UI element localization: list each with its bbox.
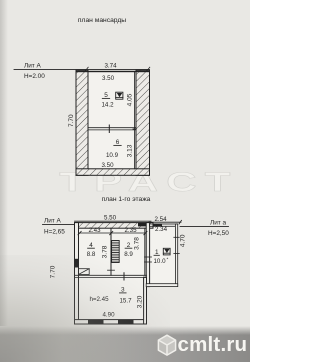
partition rooms 4|2 [110,228,112,275]
stove between rooms 4 and 2 [112,241,120,263]
attic interior wall between 5 and 6 [88,127,136,129]
svg-text:Н=2,65: Н=2,65 [44,229,65,236]
door tick on right wall [145,256,152,258]
inner dim line under 2.43/2.35 [79,232,147,234]
svg-text:Лит А: Лит А [44,218,61,225]
vertical dim line x=144.5 (3.78/3.20) [144,228,146,275]
dim line 2.54 [149,221,181,223]
svg-text:Лит а: Лит а [210,220,226,227]
svg-text:план 1-го этажа: план 1-го этажа [102,196,151,203]
attic bottom wall [76,169,150,176]
svg-text:4.05: 4.05 [126,93,133,106]
svg-text:10.9: 10.9 [106,152,119,159]
stove icon room 5 [116,92,123,99]
svg-text:Н=2,50: Н=2,50 [208,230,229,237]
staircase symbol room 4 [79,269,90,275]
annex bottom wall [146,284,178,287]
attic interior [88,72,136,169]
svg-text:4.70: 4.70 [180,234,187,247]
svg-text:5.50: 5.50 [104,215,117,222]
stove icon room 1 [163,248,170,255]
room3 right wall [144,277,147,324]
svg-text:Лит А: Лит А [24,63,41,70]
svg-text:cmlt.ru: cmlt.ru [178,333,248,356]
annex interior [150,226,176,283]
svg-text:2.54: 2.54 [154,216,167,223]
svg-text:2.34: 2.34 [155,226,168,233]
attic left wall [76,70,88,175]
left wall [75,223,79,324]
svg-text:3.13: 3.13 [127,144,134,157]
window in top wall [138,223,149,227]
scan left edge shadow [0,0,8,362]
leader line [43,223,75,225]
annex right wall [175,224,177,287]
right wall upper (rooms 2|1) [146,223,149,287]
door tick interior wall [123,273,125,280]
svg-text:Н=2.00: Н=2.00 [24,73,45,80]
cmlt logo cube [158,335,175,355]
window in left wall [75,259,79,268]
bottom-left scan haze [0,255,170,362]
dim line 3.74 with leader [14,68,150,70]
svg-text:план мансарды: план мансарды [78,17,126,24]
door tick partition [108,269,115,271]
attic top wall [76,71,150,72]
window2 in bottom wall [118,320,134,324]
bottom wall [75,320,147,324]
door tick attic interior wall [108,125,110,133]
svg-text:7.70: 7.70 [68,114,75,127]
footer gradient bar [0,326,250,362]
svg-text:3.50: 3.50 [102,75,115,82]
floor interior [79,228,147,320]
dim line 5.50 [75,220,152,222]
main outline: top wall [75,223,154,229]
svg-text:14.2: 14.2 [101,101,114,108]
svg-text:3.78: 3.78 [134,237,141,250]
leader line annex [180,226,229,228]
annex top wall [150,224,178,226]
window1 in bottom wall [88,320,104,324]
svg-text:3.50: 3.50 [101,162,114,169]
attic right wall [136,70,150,175]
window ticks annex right wall [174,236,180,238]
svg-text:3.74: 3.74 [104,62,117,69]
annex top wall filled segment [153,224,163,227]
interior wall (rooms 4,2 / room 3) [75,274,147,276]
vertical dim line right (4.05 / 3.13) [134,72,136,169]
